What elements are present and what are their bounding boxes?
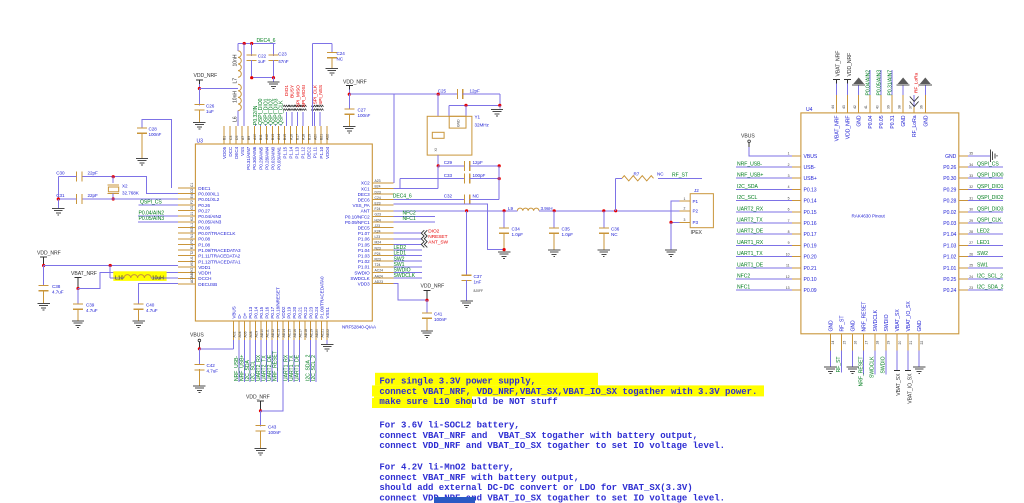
svg-text:RF_ST: RF_ST bbox=[840, 316, 846, 332]
U3 bottom pin A08 P0.13 bbox=[249, 321, 251, 340]
svg-text:P1: P1 bbox=[693, 199, 699, 204]
ground bbox=[421, 330, 433, 332]
svg-text:VDD_NRF: VDD_NRF bbox=[343, 79, 367, 85]
U3 right pin T24 P1.01 bbox=[372, 266, 393, 268]
svg-text:NRESET: NRESET bbox=[428, 234, 447, 240]
wire bbox=[199, 88, 238, 90]
svg-text:G23: G23 bbox=[375, 213, 382, 217]
resistor R7 NC bbox=[615, 178, 617, 211]
svg-text:8J0FF: 8J0FF bbox=[474, 289, 484, 293]
svg-text:A08: A08 bbox=[249, 331, 253, 337]
svg-text:LED1: LED1 bbox=[977, 240, 990, 246]
U3 top pin A14 P0.03/AIN1 bbox=[277, 126, 279, 144]
svg-text:100pF: 100pF bbox=[473, 173, 486, 178]
svg-text:P0.00/XL1: P0.00/XL1 bbox=[198, 191, 219, 196]
svg-text:L1: L1 bbox=[190, 223, 194, 227]
svg-text:SWDCLK: SWDCLK bbox=[394, 273, 416, 279]
svg-text:32: 32 bbox=[969, 185, 973, 189]
wire XC1 bbox=[399, 179, 401, 189]
svg-text:4.7uF: 4.7uF bbox=[86, 308, 98, 313]
svg-text:VBUS: VBUS bbox=[190, 333, 204, 339]
svg-text:RAK4630 Pinout: RAK4630 Pinout bbox=[852, 214, 886, 219]
net label NRF_USB+ bbox=[244, 340, 246, 382]
ground bbox=[343, 126, 355, 128]
svg-text:T2: T2 bbox=[190, 251, 194, 255]
U4 left pin 7 P0.16 bbox=[792, 222, 801, 224]
svg-text:38: 38 bbox=[898, 105, 902, 109]
svg-text:100nF: 100nF bbox=[149, 132, 162, 137]
U4 left pin 4 P0.13 bbox=[792, 188, 801, 190]
svg-text:P0.05/AIN3: P0.05/AIN3 bbox=[198, 220, 221, 225]
svg-text:AD12: AD12 bbox=[271, 329, 275, 338]
svg-text:P0.20: P0.20 bbox=[804, 255, 817, 261]
svg-text:VDD_NRF: VDD_NRF bbox=[421, 284, 445, 290]
svg-text:A22: A22 bbox=[326, 134, 330, 140]
svg-text:P0.26: P0.26 bbox=[198, 203, 210, 208]
svg-text:UART1_TX: UART1_TX bbox=[737, 251, 763, 257]
junction bbox=[498, 177, 501, 180]
wire VDD2 bbox=[261, 340, 284, 411]
net label NFC1 bbox=[736, 289, 792, 291]
svg-text:VDD_NRF: VDD_NRF bbox=[847, 53, 853, 77]
svg-text:P0.09: P0.09 bbox=[804, 288, 817, 294]
ground bbox=[273, 78, 275, 82]
svg-text:AD22: AD22 bbox=[326, 329, 330, 338]
svg-text:P0.27: P0.27 bbox=[198, 208, 210, 213]
U3 top pin B21 P1.10 bbox=[320, 126, 322, 144]
wire C25 rail bbox=[349, 93, 457, 95]
U3 bottom pin A02 VBUS bbox=[233, 321, 235, 340]
net label UART1_RX bbox=[288, 340, 290, 382]
J2 pin 1 P1 bbox=[679, 200, 690, 202]
svg-text:GND: GND bbox=[901, 115, 907, 127]
svg-text:AD18: AD18 bbox=[304, 329, 308, 338]
svg-text:P1.03: P1.03 bbox=[358, 254, 370, 259]
ground bbox=[918, 351, 920, 367]
U4 left pin 6 P0.15 bbox=[792, 211, 801, 213]
svg-text:AD23: AD23 bbox=[375, 280, 384, 284]
svg-text:A23: A23 bbox=[375, 179, 381, 183]
svg-text:AD16: AD16 bbox=[293, 329, 297, 338]
inductor L6 10nH bbox=[238, 84, 241, 110]
net label NRF_USB- bbox=[736, 166, 792, 168]
U3 left pin G1 P0.27 bbox=[178, 210, 195, 212]
svg-text:10uH: 10uH bbox=[152, 276, 164, 282]
junction bbox=[272, 76, 275, 79]
capacitor C37 1nF bbox=[466, 211, 468, 276]
ground bbox=[852, 351, 854, 367]
U3 left pin R1 P1.09/TRACEDATA3 bbox=[178, 249, 195, 251]
capacitor C41 100nF bbox=[426, 300, 428, 313]
svg-text:C39: C39 bbox=[86, 303, 95, 308]
junction bbox=[465, 209, 468, 212]
svg-text:M2: M2 bbox=[190, 227, 194, 232]
svg-text:4: 4 bbox=[788, 185, 790, 189]
svg-text:33: 33 bbox=[969, 174, 973, 178]
wire XL1 bbox=[113, 177, 178, 194]
U3 bottom pin AC19 P0.23 bbox=[310, 321, 312, 340]
net label UART1_DE bbox=[736, 267, 792, 269]
svg-text:1nF: 1nF bbox=[474, 279, 482, 284]
net label I2C_SCL_2 bbox=[315, 340, 317, 382]
net label I2C_SCL bbox=[736, 200, 792, 202]
svg-text:P1.07: P1.07 bbox=[358, 231, 370, 236]
wire VDD1 rail bbox=[44, 265, 179, 267]
svg-text:AC5: AC5 bbox=[190, 276, 194, 283]
net label LED1 bbox=[968, 244, 1003, 246]
net label NRF_USB+ bbox=[736, 177, 792, 179]
svg-text:VBUS: VBUS bbox=[232, 306, 237, 318]
U3 left pin U1 P1.12/TRACEDATA1 bbox=[178, 260, 195, 262]
svg-text:P0.31/AIN7: P0.31/AIN7 bbox=[246, 146, 251, 169]
net label QSPI_CS bbox=[139, 204, 179, 206]
U3 top pin A18 P1.12 bbox=[302, 126, 304, 144]
svg-text:3: 3 bbox=[684, 218, 686, 222]
junction bbox=[498, 164, 501, 167]
svg-text:XC2: XC2 bbox=[361, 181, 370, 186]
svg-text:GND: GND bbox=[945, 154, 957, 160]
svg-text:P0.19: P0.19 bbox=[287, 306, 292, 318]
wire bbox=[237, 44, 239, 51]
svg-text:B1: B1 bbox=[223, 136, 227, 140]
U4 bottom pin 22 GND bbox=[918, 334, 920, 351]
svg-text:VDD2: VDD2 bbox=[281, 306, 286, 319]
svg-text:T24: T24 bbox=[375, 263, 381, 267]
svg-text:UART2_RX: UART2_RX bbox=[737, 206, 764, 212]
svg-text:P0.04/AIN2: P0.04/AIN2 bbox=[198, 214, 221, 219]
svg-text:C40: C40 bbox=[146, 303, 155, 308]
U3 top pin A12 P0.28/AIN4 bbox=[265, 126, 267, 144]
ground bbox=[548, 249, 560, 251]
svg-text:P2: P2 bbox=[190, 239, 194, 243]
svg-text:L6: L6 bbox=[232, 116, 238, 122]
power VDD_NRF bbox=[394, 284, 427, 301]
svg-text:R23: R23 bbox=[375, 258, 381, 262]
U3 top pin B15 P1.15 bbox=[284, 126, 286, 144]
net label QSPI_CLK bbox=[280, 125, 282, 127]
svg-text:DIO2: DIO2 bbox=[428, 228, 439, 234]
U3 right pin AD23 VDD3 bbox=[372, 283, 393, 285]
U3 bottom pin AC15 P0.19 bbox=[288, 321, 290, 340]
svg-text:I2C_SCL_2: I2C_SCL_2 bbox=[977, 274, 1003, 280]
svg-text:3.9nH: 3.9nH bbox=[541, 206, 553, 211]
net label UART2_RX bbox=[736, 211, 792, 213]
svg-text:34: 34 bbox=[969, 163, 973, 167]
U3 right pin G23 P0.10/NFC2 bbox=[372, 215, 393, 217]
net label RF_ST bbox=[841, 351, 843, 373]
svg-text:D5: D5 bbox=[235, 136, 239, 140]
capacitor C23 47nF bbox=[273, 44, 275, 56]
svg-text:RF_LoRa: RF_LoRa bbox=[913, 72, 919, 93]
svg-text:SW1: SW1 bbox=[977, 262, 988, 268]
svg-text:NFC1: NFC1 bbox=[403, 216, 416, 222]
svg-text:P0.13: P0.13 bbox=[248, 306, 253, 318]
svg-text:BUSY: BUSY bbox=[290, 84, 296, 98]
U4 top pin 38 GND bbox=[902, 95, 904, 113]
svg-text:I2C_SDA: I2C_SDA bbox=[737, 184, 759, 190]
U3 right pin L23 P1.06 bbox=[372, 238, 393, 240]
net label I2C_SCL_2 bbox=[968, 278, 1003, 280]
U3 right pin N23 P1.04 bbox=[372, 249, 393, 251]
U3 left pin N1 P0.08 bbox=[178, 238, 195, 240]
svg-text:X2: X2 bbox=[122, 184, 128, 189]
svg-text:23: 23 bbox=[969, 286, 973, 290]
net RF main wire bbox=[394, 210, 518, 212]
U3 left pin E4 P0.01/XL2 bbox=[178, 198, 195, 200]
svg-text:C41: C41 bbox=[434, 312, 443, 317]
svg-text:GND: GND bbox=[923, 115, 929, 127]
svg-text:P0.10: P0.10 bbox=[804, 277, 817, 283]
net label QSPI_DIO1 bbox=[265, 125, 267, 127]
net BUSY no-connect bbox=[291, 112, 293, 126]
capacitor C38 4.7uF bbox=[43, 266, 45, 287]
svg-text:connect VDD_NRF and VBAT_IO_SX: connect VDD_NRF and VBAT_IO_SX togather … bbox=[379, 493, 725, 503]
U3 top pin A7 VSS bbox=[241, 126, 243, 144]
svg-text:P1.08: P1.08 bbox=[198, 242, 210, 247]
svg-text:P0.18/NRESET: P0.18/NRESET bbox=[276, 287, 281, 319]
svg-text:QSPI_DIO2: QSPI_DIO2 bbox=[977, 195, 1004, 201]
U4 right pin 28 P1.04 bbox=[959, 233, 968, 235]
U3 bottom pin AD18 P0.22 bbox=[304, 321, 306, 340]
U4 left pin 5 P0.14 bbox=[792, 200, 801, 202]
net label QSPI_DIO3 bbox=[275, 125, 277, 127]
svg-text:C35: C35 bbox=[562, 227, 571, 232]
capacitor C39 4.7uF bbox=[77, 289, 79, 305]
capacitor C35 1.0pF bbox=[553, 211, 555, 229]
U4 left pin 9 P0.19 bbox=[792, 244, 801, 246]
svg-text:G1: G1 bbox=[190, 205, 194, 210]
junction bbox=[437, 93, 440, 96]
svg-text:P1.12/TRACEDATA1: P1.12/TRACEDATA1 bbox=[198, 259, 241, 264]
net label QSPI_CLK bbox=[968, 222, 1003, 224]
svg-text:DEC4: DEC4 bbox=[234, 146, 239, 159]
svg-text:D23: D23 bbox=[375, 190, 381, 194]
svg-text:N23: N23 bbox=[375, 246, 381, 250]
svg-text:12: 12 bbox=[786, 275, 790, 279]
U3 left pin M2 P0.07/TRACECLK bbox=[178, 232, 195, 234]
svg-text:DEC2: DEC2 bbox=[307, 146, 312, 159]
svg-text:VDDH: VDDH bbox=[198, 271, 211, 276]
svg-text:For 4.2V li-MnO2 battery,: For 4.2V li-MnO2 battery, bbox=[379, 463, 514, 473]
net label I2C_SDA bbox=[736, 188, 792, 190]
svg-text:A20: A20 bbox=[313, 134, 317, 140]
svg-text:22: 22 bbox=[920, 341, 924, 345]
junction bbox=[503, 248, 506, 251]
svg-text:P0.23: P0.23 bbox=[309, 306, 314, 318]
svg-text:GND: GND bbox=[457, 119, 461, 127]
ground bbox=[72, 320, 84, 322]
U4 right pin 35 GND bbox=[959, 155, 968, 157]
U3 left pin P2 P1.08 bbox=[178, 243, 195, 245]
svg-text:31: 31 bbox=[969, 196, 973, 200]
svg-text:25: 25 bbox=[969, 264, 973, 268]
svg-text:P0.03: P0.03 bbox=[943, 221, 956, 227]
U4 bottom pin 14 GND bbox=[829, 334, 831, 351]
svg-text:I2C_SDA_2: I2C_SDA_2 bbox=[977, 285, 1004, 291]
svg-text:P0.21: P0.21 bbox=[298, 306, 303, 318]
svg-text:P0.07/TRACECLK: P0.07/TRACECLK bbox=[198, 231, 236, 236]
svg-text:P0.31/AIN7: P0.31/AIN7 bbox=[888, 70, 894, 96]
capacitor C34 1.0pF bbox=[503, 211, 505, 229]
ground bbox=[598, 249, 610, 251]
wire J2 gnd bbox=[671, 201, 679, 222]
svg-text:AA24: AA24 bbox=[375, 274, 383, 278]
capacitor C43 100nF bbox=[260, 411, 262, 427]
svg-text:UART1_DE: UART1_DE bbox=[737, 262, 764, 268]
svg-text:4.7uF: 4.7uF bbox=[52, 290, 64, 295]
net label LED2 bbox=[394, 249, 422, 251]
svg-text:DEC1: DEC1 bbox=[198, 186, 211, 191]
U3 right pin AC24 SWDIO bbox=[372, 271, 393, 273]
U4 right pin 30 P0.02 bbox=[959, 211, 968, 213]
svg-text:8: 8 bbox=[788, 230, 790, 234]
svg-text:P1.13: P1.13 bbox=[295, 146, 300, 158]
svg-text:NRF_RESET: NRF_RESET bbox=[273, 351, 279, 381]
svg-text:P0.22: P0.22 bbox=[303, 306, 308, 318]
net label P0.04/AIN2 bbox=[138, 215, 178, 217]
svg-text:36: 36 bbox=[920, 105, 924, 109]
svg-text:VDD5: VDD5 bbox=[222, 146, 227, 159]
junction bbox=[112, 197, 115, 200]
U3 bottom pin AD14 VDD2 bbox=[282, 321, 284, 340]
ground bbox=[326, 68, 338, 70]
svg-text:C43: C43 bbox=[268, 424, 277, 429]
ground bbox=[858, 86, 860, 96]
svg-text:P1.00/TRACEDATA0: P1.00/TRACEDATA0 bbox=[320, 276, 325, 319]
U3 left pin AB2 DCCH bbox=[178, 277, 195, 279]
U4 right pin 25 P1.01 bbox=[959, 267, 968, 269]
svg-text:37: 37 bbox=[909, 105, 913, 109]
svg-text:Y1: Y1 bbox=[475, 115, 481, 120]
inductor L7 10nH bbox=[238, 51, 241, 77]
U3 top pin A22 VDD4 bbox=[326, 126, 328, 144]
svg-text:E4: E4 bbox=[190, 194, 194, 198]
junction bbox=[259, 409, 262, 412]
capacitor C30 22pF bbox=[82, 176, 114, 178]
svg-text:QSPI_DIO1: QSPI_DIO1 bbox=[977, 184, 1004, 190]
junction bbox=[112, 175, 115, 178]
svg-text:AC11: AC11 bbox=[265, 329, 269, 337]
junction bbox=[425, 299, 428, 302]
wire bbox=[57, 177, 59, 199]
svg-text:1uF: 1uF bbox=[258, 59, 266, 64]
U4 right pin 24 P0.25 bbox=[959, 278, 968, 280]
net DIO1 no-connect bbox=[285, 112, 287, 126]
svg-text:NRF_RESET: NRF_RESET bbox=[858, 357, 864, 387]
svg-text:P1.04: P1.04 bbox=[943, 232, 956, 238]
ground bbox=[829, 351, 831, 367]
U4 top pin 40 P0.05 bbox=[880, 95, 882, 113]
svg-text:4.7uF: 4.7uF bbox=[146, 308, 158, 313]
svg-text:C29: C29 bbox=[444, 160, 453, 165]
svg-text:should add external DC-DC conv: should add external DC-DC convert or LDO… bbox=[379, 483, 692, 493]
svg-text:SWDCLK: SWDCLK bbox=[870, 356, 876, 378]
U3 left pin C1 DEC1 bbox=[178, 187, 195, 189]
capacitor C22 1uF bbox=[251, 44, 253, 56]
U3 right pin K24 P1.07 bbox=[372, 232, 393, 234]
net label SWDCLK bbox=[394, 277, 422, 279]
svg-text:16: 16 bbox=[853, 341, 857, 345]
U4 left pin 10 P0.20 bbox=[792, 256, 801, 258]
net NRESET bbox=[394, 238, 422, 240]
svg-text:P1.02: P1.02 bbox=[358, 259, 370, 264]
svg-text:P0.14: P0.14 bbox=[254, 306, 259, 318]
svg-text:7: 7 bbox=[788, 219, 790, 223]
U4 right pin 26 P1.02 bbox=[959, 256, 968, 258]
svg-text:A12: A12 bbox=[265, 134, 269, 140]
net label I2C_SDA_2 bbox=[310, 340, 312, 382]
svg-text:USB+: USB+ bbox=[804, 176, 817, 182]
net label UART1_TX bbox=[736, 256, 792, 258]
U3 bottom pin A04 D- bbox=[238, 321, 240, 340]
svg-text:N1: N1 bbox=[190, 234, 194, 238]
svg-text:P0.31: P0.31 bbox=[890, 115, 896, 128]
svg-text:DEC4_6: DEC4_6 bbox=[393, 194, 412, 200]
wire bbox=[252, 77, 274, 79]
svg-text:32MHz: 32MHz bbox=[475, 123, 490, 128]
U4 bottom pin 21 VBAT_IO_SX bbox=[907, 334, 909, 351]
U3 bottom pin AD10 P0.15 bbox=[260, 321, 262, 340]
svg-text:A04: A04 bbox=[238, 331, 242, 337]
net label NRF_RESET bbox=[277, 340, 279, 382]
svg-text:35: 35 bbox=[969, 152, 973, 156]
svg-text:15: 15 bbox=[842, 341, 846, 345]
net label NRF_RESET bbox=[863, 351, 865, 375]
ground bbox=[57, 199, 59, 209]
note highlight yellow bbox=[375, 373, 598, 386]
crystal Y1 32MHz bbox=[427, 116, 472, 155]
svg-text:P0.05/AIN3: P0.05/AIN3 bbox=[139, 216, 165, 222]
svg-text:XC1: XC1 bbox=[361, 186, 370, 191]
svg-text:P0.16: P0.16 bbox=[804, 221, 817, 227]
wire XL2 bbox=[113, 198, 178, 200]
U4 right pin 34 P0.26 bbox=[959, 166, 968, 168]
junction bbox=[348, 93, 351, 96]
net label SWDIO bbox=[885, 351, 887, 375]
svg-text:P1.11: P1.11 bbox=[313, 146, 318, 158]
net label DEC4_6 top rail bbox=[238, 43, 276, 45]
net SPI_NSS no-connect bbox=[319, 112, 321, 126]
junction bbox=[198, 347, 201, 350]
junction bbox=[76, 287, 79, 290]
U4 top pin 36 GND bbox=[924, 95, 926, 113]
svg-text:100nF: 100nF bbox=[434, 317, 447, 322]
svg-text:C38: C38 bbox=[52, 284, 61, 289]
U4 bottom pin 17 NRF_RESET bbox=[863, 334, 865, 351]
svg-text:26: 26 bbox=[969, 252, 973, 256]
net SPI_MISO no-connect bbox=[297, 112, 299, 126]
svg-text:P3: P3 bbox=[693, 220, 699, 225]
svg-text:P1.01: P1.01 bbox=[943, 266, 956, 272]
svg-text:USB-: USB- bbox=[804, 165, 816, 171]
svg-text:P1.10: P1.10 bbox=[319, 146, 324, 158]
svg-text:NRF_RESET: NRF_RESET bbox=[862, 302, 868, 332]
power VBAT_NRF bbox=[836, 81, 838, 95]
svg-text:connect VDD_NRF and VBAT_IO_SX: connect VDD_NRF and VBAT_IO_SX togather … bbox=[379, 441, 725, 451]
net RF_LoRa antenna feed bbox=[913, 95, 915, 107]
wire bbox=[437, 94, 439, 116]
junction bbox=[250, 76, 253, 79]
svg-text:AD14: AD14 bbox=[282, 329, 286, 338]
svg-text:VDD3: VDD3 bbox=[358, 282, 371, 287]
svg-text:SWDIO: SWDIO bbox=[884, 314, 890, 331]
U3 top pin B13 P0.02/AIN0 bbox=[271, 126, 273, 144]
svg-text:QSPI_DIO0: QSPI_DIO0 bbox=[977, 173, 1004, 179]
junction bbox=[498, 104, 501, 107]
svg-text:A10: A10 bbox=[253, 134, 257, 140]
svg-text:29: 29 bbox=[969, 219, 973, 223]
junction bbox=[553, 209, 556, 212]
